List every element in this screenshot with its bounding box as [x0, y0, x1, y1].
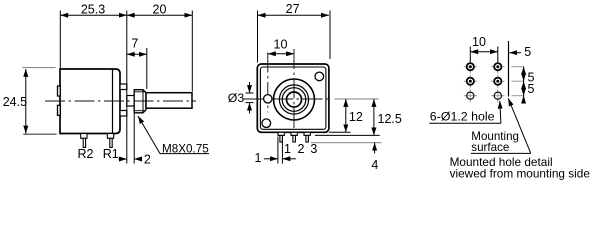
potentiometer body side view — [60, 69, 120, 134]
hole A2 — [467, 78, 474, 85]
hole grid crosshairs gray — [464, 60, 505, 102]
dimension 10 detail — [470, 35, 498, 62]
svg-text:7: 7 — [131, 36, 138, 50]
hole B3 — [494, 92, 501, 99]
dimension diameter 3 — [228, 82, 254, 114]
flange tab lower — [120, 111, 127, 117]
row extension dashes — [512, 67, 525, 96]
dimension 7 — [127, 36, 147, 89]
flange tab upper — [120, 84, 127, 90]
svg-text:5: 5 — [528, 82, 535, 96]
caption mounted hole detail — [450, 155, 591, 180]
svg-text:6-Ø1.2 hole: 6-Ø1.2 hole — [430, 110, 495, 124]
hole A3 — [467, 92, 474, 99]
label mounting surface with leader — [471, 98, 531, 154]
potentiometer front view outer case — [257, 64, 329, 132]
dimension 2 — [119, 106, 151, 166]
svg-text:Ø3: Ø3 — [228, 91, 245, 105]
pin R1 side view — [107, 134, 113, 148]
dimension 4 — [371, 143, 378, 172]
label M8X0.75 with leader — [138, 116, 209, 155]
dimension 27 — [258, 2, 331, 63]
front view vertical centerline — [293, 49, 295, 133]
dimension 12 — [346, 99, 363, 132]
pin shoulder extension line — [315, 134, 380, 136]
svg-text:20: 20 — [153, 2, 167, 16]
svg-text:1: 1 — [284, 142, 291, 156]
front pin 1 — [278, 132, 284, 142]
svg-text:R2: R2 — [78, 147, 94, 161]
svg-text:25.3: 25.3 — [81, 2, 105, 16]
svg-text:12.5: 12.5 — [378, 112, 402, 126]
bushing collar — [127, 96, 134, 107]
dimension 12.5 — [374, 99, 402, 135]
svg-text:3: 3 — [310, 142, 317, 156]
dimension 5 top — [509, 45, 531, 59]
dimension 25.3 — [60, 2, 127, 68]
body left tab lower — [58, 105, 61, 115]
hole A1 — [467, 63, 474, 70]
washer circle inner — [282, 88, 306, 112]
pin R2 side view — [81, 134, 87, 148]
front pin 2 — [291, 132, 297, 142]
dimension 1 — [255, 137, 296, 166]
front pin 3 — [304, 132, 310, 142]
svg-text:12: 12 — [349, 110, 363, 124]
svg-text:27: 27 — [286, 2, 300, 16]
hole diameter 3 — [264, 95, 272, 103]
hole B1 — [494, 63, 501, 70]
svg-text:2: 2 — [144, 152, 151, 166]
svg-text:5: 5 — [524, 45, 531, 59]
dimension 5 rows lower — [524, 81, 535, 102]
mounting surface line — [508, 41, 510, 97]
dimension 24.5 — [3, 68, 57, 135]
shaft — [146, 93, 192, 109]
centerline extension gray right — [335, 98, 379, 100]
svg-text:24.5: 24.5 — [3, 95, 27, 109]
corner hole top-right — [315, 72, 324, 81]
dimension 20 — [127, 2, 193, 91]
front view inner outline — [260, 67, 326, 129]
bushing circle front — [274, 79, 315, 120]
shaft circle front — [287, 92, 302, 107]
svg-text:viewed from mounting side: viewed from mounting side — [450, 167, 591, 181]
threaded bushing — [134, 90, 146, 113]
dimension 5 rows upper — [524, 67, 535, 85]
mounting surface extension line — [126, 11, 128, 164]
svg-text:10: 10 — [274, 38, 288, 52]
pin tip extension line gray — [311, 142, 382, 144]
svg-text:R1: R1 — [103, 147, 119, 161]
horizontal centerline front view — [244, 98, 331, 100]
label 6-diameter 1.2 hole with leader — [429, 101, 501, 124]
svg-text:4: 4 — [371, 158, 378, 172]
svg-text:1: 1 — [255, 151, 262, 165]
hole centerline vertical — [267, 53, 269, 113]
corner hole bottom-left — [262, 119, 271, 128]
washer circle outer — [279, 85, 308, 114]
centerline side view — [45, 100, 196, 102]
hole B2 — [494, 78, 501, 85]
body left tab upper — [58, 86, 61, 96]
bottom edge extension — [329, 131, 351, 133]
svg-text:surface: surface — [471, 141, 509, 154]
svg-text:2: 2 — [298, 142, 305, 156]
dimension 10 front — [268, 38, 294, 54]
svg-text:10: 10 — [472, 35, 486, 49]
